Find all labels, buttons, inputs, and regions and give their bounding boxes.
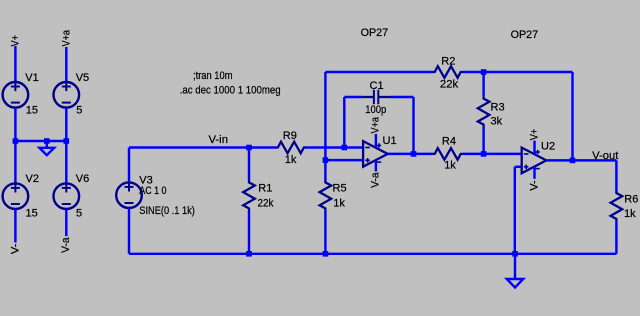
resistor R5 <box>320 180 332 211</box>
wire R9 to U1 inverting input <box>306 146 363 148</box>
junction bus-ground <box>44 138 50 144</box>
svg-text:V-: V- <box>9 243 21 254</box>
wire U2 V+ power stub <box>533 141 535 155</box>
resistor R9 <box>275 142 306 154</box>
wire V+a stub to V5 <box>65 47 67 82</box>
wire V6 to V-a stub <box>65 209 67 236</box>
junction R5-rail <box>323 251 329 257</box>
voltage source V5 <box>54 82 80 108</box>
svg-text:1k: 1k <box>285 154 297 166</box>
wire R6 bottom lead <box>615 221 617 254</box>
svg-text:V5: V5 <box>76 72 89 84</box>
wire V-in rail <box>129 146 276 148</box>
svg-text:V1: V1 <box>25 72 38 84</box>
wire V5 to bus <box>65 108 67 141</box>
junction R3-R4 <box>481 151 487 157</box>
node V+ power label U2 <box>528 129 540 141</box>
label V5 <box>76 72 89 84</box>
resistor R6 <box>611 191 623 222</box>
junction noninverting node <box>323 157 329 163</box>
junction V1-bus <box>13 138 19 144</box>
wire U2 output <box>546 159 616 161</box>
wire feedback top <box>484 71 573 73</box>
node V-out net label <box>592 150 618 162</box>
node V+a net label <box>61 29 73 46</box>
wire bottom ground rail <box>129 253 616 255</box>
label R9 <box>283 130 297 142</box>
value 1k of R5 <box>333 198 345 210</box>
svg-text:15: 15 <box>26 208 38 220</box>
voltage source V3 <box>116 182 142 208</box>
value 5 of V5 <box>76 105 82 117</box>
resistor R1 <box>243 180 255 211</box>
svg-text:U2: U2 <box>541 141 555 153</box>
value 22k of R1 <box>258 197 274 209</box>
svg-text:V-a: V-a <box>370 172 382 188</box>
junction R1-rail <box>246 251 252 257</box>
value OP27 of U1 <box>361 27 389 39</box>
junction V-in R1 <box>246 145 252 151</box>
label V1 <box>25 72 38 84</box>
node V+a power label U1 <box>370 116 382 133</box>
svg-text:100p: 100p <box>365 104 386 116</box>
node V+ net label <box>10 35 22 47</box>
wire ground stem <box>46 141 48 148</box>
svg-text:V-in: V-in <box>209 134 229 146</box>
op-amp U1 <box>363 141 388 167</box>
junction gnd-rail <box>512 251 518 257</box>
svg-text:C1: C1 <box>370 80 384 92</box>
wire R2 right lead <box>463 71 484 73</box>
wire C1 left vertical <box>343 97 345 148</box>
label R3 <box>491 101 505 113</box>
wire R2-left vertical branch <box>324 72 326 160</box>
wire R1 bottom lead <box>248 211 250 254</box>
svg-text:AC 1 0: AC 1 0 <box>139 185 166 197</box>
junction V5-bus <box>64 138 70 144</box>
value AC 1 0 <box>139 185 166 197</box>
svg-text:R3: R3 <box>491 101 505 113</box>
value 15 of V2 <box>26 208 38 220</box>
wire R3 bottom lead <box>482 127 484 154</box>
wire R5 bottom lead <box>324 211 326 254</box>
wire output down to R6 <box>615 160 617 190</box>
voltage source V2 <box>3 183 29 209</box>
junction R2-R3 <box>481 69 487 75</box>
resistor R2 <box>432 66 463 78</box>
wire V3 top <box>128 148 130 183</box>
op-amp U2 <box>522 148 547 174</box>
wire V2 to V- stub <box>14 209 16 243</box>
wire R1 top lead <box>248 148 250 181</box>
value 1k of R4 <box>444 160 456 172</box>
spice directive ac <box>180 85 281 97</box>
label U1 <box>383 135 397 147</box>
wire V3 bottom <box>128 208 130 254</box>
svg-text:5: 5 <box>76 208 82 220</box>
svg-text:OP27: OP27 <box>511 29 539 41</box>
junction feedback-output <box>570 158 576 164</box>
wire gnd stem right <box>514 254 516 279</box>
label R6 <box>624 194 638 206</box>
wire supply bus <box>15 140 66 142</box>
value OP27 of U2 <box>511 29 539 41</box>
voltage source V6 <box>54 183 80 209</box>
label R5 <box>333 182 347 194</box>
value 3k of R3 <box>491 116 503 128</box>
svg-text:V-: V- <box>528 180 540 191</box>
node V-a net label <box>60 237 72 253</box>
ground symbol left <box>39 148 54 155</box>
svg-text:V+a: V+a <box>61 29 73 46</box>
node V-in net label <box>209 134 229 146</box>
svg-text:R2: R2 <box>441 56 455 68</box>
wire U1 V+a power stub <box>375 134 377 148</box>
svg-text:1k: 1k <box>624 208 636 220</box>
svg-text:1k: 1k <box>444 160 456 172</box>
svg-text:R5: R5 <box>333 182 347 194</box>
svg-text:V6: V6 <box>76 173 89 185</box>
svg-text:15: 15 <box>26 105 38 117</box>
voltage source V1 <box>3 82 29 108</box>
label R2 <box>441 56 455 68</box>
ground symbol right <box>507 279 523 288</box>
node V- power label U2 <box>528 180 540 191</box>
svg-text:;tran 10m: ;tran 10m <box>193 70 233 82</box>
wire R4 to U2 <box>463 153 522 155</box>
junction C1 tap <box>342 145 348 151</box>
value 22k of R2 <box>440 79 459 91</box>
label R4 <box>442 136 456 148</box>
svg-text:5: 5 <box>76 105 82 117</box>
value 15 of V1 <box>26 105 38 117</box>
resistor R4 <box>432 148 463 160</box>
wire U1 V-a power stub <box>375 160 377 171</box>
wire U2 V- power stub <box>533 167 535 179</box>
svg-text:22k: 22k <box>440 79 459 91</box>
label R1 <box>258 183 272 195</box>
wire U2 noninverting lead <box>515 166 522 168</box>
node V- net label <box>9 243 21 254</box>
wire R2 left lead <box>325 71 432 73</box>
wire to U1 noninverting input <box>325 159 363 161</box>
capacitor C1 <box>362 90 392 104</box>
svg-text:SINE(0 .1 1k): SINE(0 .1 1k) <box>139 205 195 217</box>
svg-text:22k: 22k <box>258 197 274 209</box>
svg-text:V+: V+ <box>528 129 540 141</box>
wire bus to V6 <box>65 141 67 183</box>
wire U1 output <box>388 153 433 155</box>
wire feedback down to output <box>571 72 573 160</box>
svg-text:V+a: V+a <box>370 116 382 133</box>
value 1k of R9 <box>285 154 297 166</box>
svg-text:.ac dec 1000 1 100meg: .ac dec 1000 1 100meg <box>180 85 281 97</box>
value SINE(0 .1 1k) <box>139 205 195 217</box>
junction C1-output <box>411 151 417 157</box>
svg-text:R9: R9 <box>283 130 297 142</box>
wire R3 top lead <box>482 72 484 96</box>
wire C1 right horizontal <box>391 96 414 98</box>
svg-text:3k: 3k <box>491 116 503 128</box>
wire R5 top lead <box>324 160 326 180</box>
svg-text:1k: 1k <box>333 198 345 210</box>
value 1k of R6 <box>624 208 636 220</box>
wire bus to V2 <box>14 141 16 183</box>
label V3 <box>139 175 152 187</box>
label V6 <box>76 173 89 185</box>
svg-text:V2: V2 <box>26 173 39 185</box>
wire V1 to bus <box>14 108 16 141</box>
label U2 <box>541 141 555 153</box>
svg-text:V+: V+ <box>10 35 22 47</box>
svg-text:U1: U1 <box>383 135 397 147</box>
spice comment tran <box>193 70 233 82</box>
svg-text:R1: R1 <box>258 183 272 195</box>
node V-a power label U1 <box>370 172 382 188</box>
wire U2 noninverting to rail <box>514 167 516 254</box>
svg-text:V-a: V-a <box>60 237 72 253</box>
value 100p of C1 <box>365 104 386 116</box>
wire C1 left horizontal <box>344 96 362 98</box>
svg-text:V-out: V-out <box>592 150 618 162</box>
wire C1 right vertical <box>412 97 414 154</box>
value 5 of V6 <box>76 208 82 220</box>
svg-text:OP27: OP27 <box>361 27 389 39</box>
label C1 <box>370 80 384 92</box>
resistor R3 <box>478 96 490 127</box>
wire V+ stub to V1 <box>14 46 16 82</box>
svg-text:R6: R6 <box>624 194 638 206</box>
label V2 <box>26 173 39 185</box>
svg-text:R4: R4 <box>442 136 456 148</box>
